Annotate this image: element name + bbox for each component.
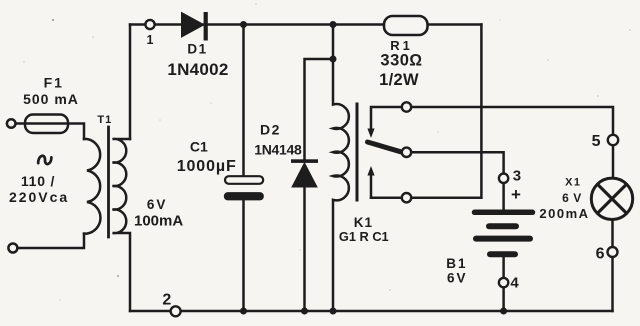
diode D2 triangle [292,163,317,187]
wire relay NO contact left stub [371,196,402,199]
junction dot top rail C1 [240,21,247,28]
capacitor C1 branch wire upper [242,25,245,177]
node 4 circle [499,278,508,287]
wire lamp to node 6 [611,220,614,248]
relay K1 core bar [356,104,359,200]
wire mains bottom to primary [17,234,84,248]
fuse F1 body [25,115,68,134]
wire node4 to bottom rail [502,287,505,311]
relay armature arrow upper [371,107,402,131]
label AC symbol [38,156,51,164]
wire battery plates to node 4 [502,254,505,278]
svg-text:1000µF: 1000µF [177,158,237,175]
wire bottom rail [130,310,613,313]
svg-text:B1: B1 [446,256,467,271]
svg-text:330Ω: 330Ω [380,52,422,70]
svg-text:2: 2 [162,292,171,309]
svg-text:4: 4 [510,274,519,291]
diode D2 lower wire [303,186,306,311]
wire node6 to bottom rail [611,257,614,311]
terminal circle mains bottom [8,244,17,253]
relay armature thick arm [368,142,403,152]
junction dot bottom rail relay [330,308,337,315]
svg-text:6 V: 6 V [562,191,582,205]
capacitor C1 bottom plate [224,192,264,200]
svg-text:200mA: 200mA [539,206,589,221]
lamp X1 cross [598,184,627,213]
transformer T1 secondary coil [113,139,131,311]
battery B1 plate 4 short [490,251,515,257]
svg-text:6V: 6V [447,271,468,286]
svg-text:5: 5 [592,133,601,150]
junction dot top rail relay [330,21,337,28]
node 2 circle [171,306,181,316]
diode D1 triangle [182,13,205,38]
svg-text:220Vca: 220Vca [9,189,69,205]
svg-text:G1 R C1: G1 R C1 [339,229,389,244]
wire node5 to lamp [612,145,615,178]
svg-text:+: + [511,185,521,204]
svg-text:1/2W: 1/2W [379,71,419,89]
relay contact circle lower [402,193,411,202]
wire top rail [130,23,481,26]
capacitor C1 branch wire lower [242,200,245,311]
svg-text:C1: C1 [190,138,208,154]
node 6 circle [608,247,618,257]
junction dot D2 tap [330,56,337,63]
svg-text:110 /: 110 / [21,173,55,189]
terminal circle mains top [7,119,16,128]
battery B1 plate 2 short [489,223,516,229]
svg-text:100mA: 100mA [134,213,183,230]
transformer T1 core [107,127,110,237]
resistor R1 body [384,16,428,35]
wire left vertical from top rail to transformer secondary [129,25,132,140]
node 3 circle [499,174,508,183]
relay contact circle upper [402,102,411,111]
junction dot bottom rail D2 [301,308,308,315]
wire right vertical top rail down to relay NO contact [411,25,481,198]
relay contact circle middle [402,148,411,157]
svg-text:6V: 6V [147,197,168,212]
svg-text:X1: X1 [565,177,581,189]
svg-text:1: 1 [147,33,154,47]
diode D1 cathode bar [204,12,208,41]
transformer T1 primary coil [84,139,100,234]
arrowhead up (relay lower) [367,166,374,176]
svg-text:3: 3 [513,168,521,185]
junction dot bottom rail battery [500,308,507,315]
svg-text:1N4148: 1N4148 [254,141,302,157]
battery B1 plate 3 long [476,236,530,242]
svg-text:1N4002: 1N4002 [167,60,228,79]
arrowhead down (relay upper) [367,129,374,139]
svg-text:D2: D2 [260,122,281,138]
junction dot bottom rail C1 [240,308,247,315]
svg-text:K1: K1 [354,215,373,230]
lamp X1 circle [591,178,632,219]
fuse F1 lead wire [16,124,84,140]
wire battery node3 to plates [502,183,505,210]
relay K1 coil [333,25,349,312]
capacitor C1 top plate [225,176,263,184]
diode D2 branch wire [305,59,334,160]
node 1 circle [145,20,154,29]
svg-text:D1: D1 [187,42,207,57]
wire relay NC contact to node 3 [411,152,503,173]
battery B1 plate 1 long [475,210,533,216]
diode D2 cathode bar [291,159,318,163]
svg-text:6: 6 [596,246,605,263]
node 5 circle [608,135,618,145]
svg-text:T1: T1 [97,114,112,126]
svg-text:500 mA: 500 mA [23,91,79,107]
svg-text:F1: F1 [44,75,64,91]
wire relay common contact to lamp branch [411,107,613,135]
relay armature arrow lower [370,173,373,198]
